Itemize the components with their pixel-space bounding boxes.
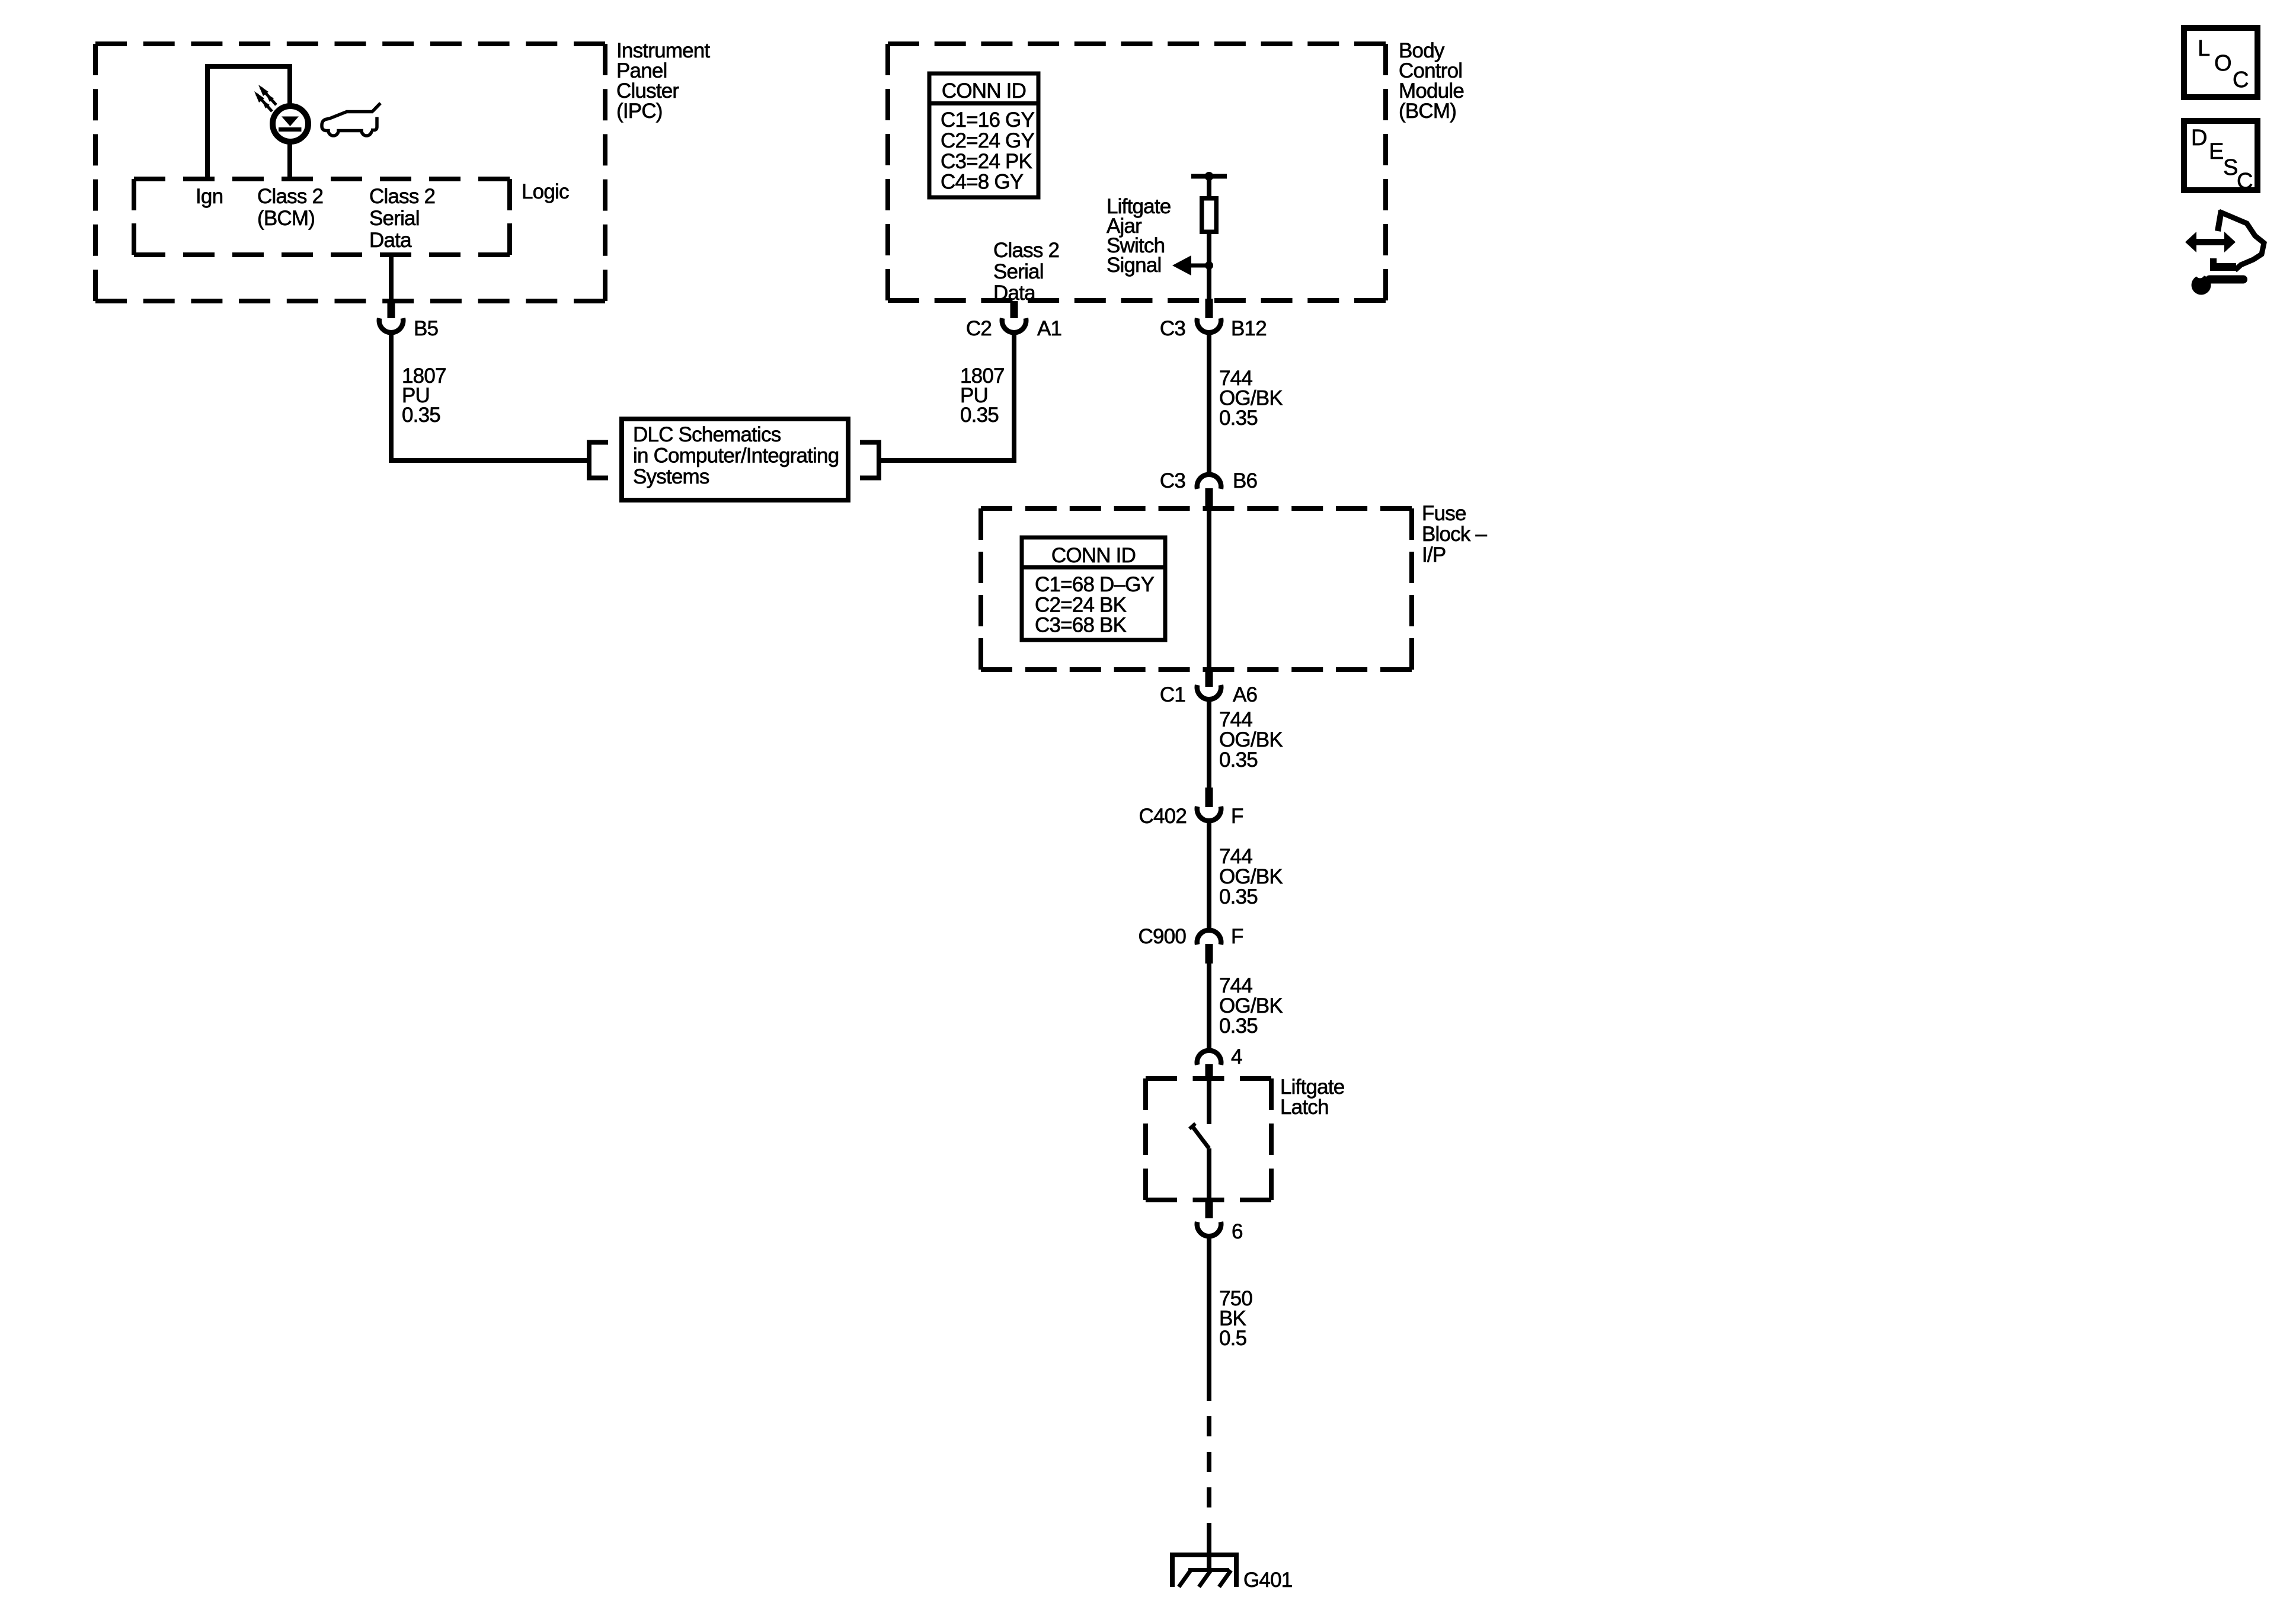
diagnostic jump icon: component outline [2210, 210, 2264, 270]
connector C3/B6 (cap cup) [1197, 475, 1221, 489]
svg-text:C: C [2237, 169, 2253, 194]
svg-text:Data: Data [993, 281, 1036, 305]
svg-text:Class 2: Class 2 [369, 185, 435, 208]
connector C900/F (cap cup) [1197, 930, 1221, 945]
svg-text:Logic: Logic [522, 180, 569, 203]
svg-text:0.35: 0.35 [402, 404, 440, 427]
LOC box icon [2184, 28, 2257, 97]
svg-text:C3=24 PK: C3=24 PK [941, 150, 1032, 173]
svg-text:C3=68 BK: C3=68 BK [1035, 614, 1127, 637]
label: Liftgate Latch [1280, 1076, 1344, 1119]
svg-text:Signal: Signal [1107, 254, 1162, 277]
wire: B12 to fuse block B6 [1207, 335, 1211, 472]
LED emission arrow 1 [258, 85, 276, 105]
table rows: C1=16 GY C2=24 GY C3=24 PK C4=8 GY [941, 108, 1034, 194]
wire label: 744 OG/BK 0.35 (BCM to fuse) [1219, 367, 1283, 430]
connector pin stub at fuse block B6 [1205, 488, 1213, 508]
svg-text:(IPC): (IPC) [616, 100, 663, 123]
pull-up supply rail inside BCM [1191, 174, 1227, 179]
svg-text:Latch: Latch [1280, 1096, 1329, 1119]
svg-text:C3: C3 [1160, 469, 1185, 492]
svg-text:0.35: 0.35 [1219, 1014, 1258, 1038]
diagnostic jump icon: double arrow [2185, 232, 2236, 252]
logic box inside IPC [134, 179, 510, 255]
connector pin 6 (cup) [1197, 1222, 1221, 1236]
wire label: 1807 PU 0.35 (BCM side) [960, 364, 1005, 427]
svg-text:S: S [2223, 155, 2238, 180]
connector pin stub at BCM C3 B12 [1205, 299, 1213, 318]
svg-text:0.35: 0.35 [1219, 748, 1258, 772]
switch blade (liftgate ajar switch) [1189, 1124, 1209, 1148]
svg-text:B12: B12 [1231, 317, 1267, 340]
wire: latch lower contact [1207, 1148, 1211, 1199]
LED emission arrow 2 [254, 91, 272, 111]
svg-text:0.35: 0.35 [1219, 885, 1258, 908]
svg-text:Block –: Block – [1422, 523, 1488, 546]
connector pin 4 (cap cup) [1197, 1051, 1221, 1065]
connector pin stub above pin 6 [1205, 1199, 1213, 1218]
LED cathode bar [279, 127, 302, 132]
svg-text:C4=8 GY: C4=8 GY [941, 171, 1024, 194]
svg-text:C1=68 D–GY: C1=68 D–GY [1035, 573, 1155, 596]
svg-text:D: D [2191, 126, 2207, 151]
svg-text:I/P: I/P [1422, 543, 1446, 566]
wire: Ign loop (left vertical, top horizontal) [207, 66, 290, 179]
wire label: 744 OG/BK 0.35 (C900 to latch) [1219, 974, 1283, 1038]
svg-text:A1: A1 [1037, 317, 1061, 340]
wire label: 750 BK 0.5 [1219, 1287, 1252, 1350]
svg-text:C900: C900 [1139, 925, 1187, 948]
svg-text:C: C [2233, 68, 2249, 92]
connector pin stub at BCM C2 A1 [1011, 301, 1018, 318]
svg-text:CONN ID: CONN ID [942, 79, 1026, 103]
DESC box icon [2184, 121, 2257, 194]
svg-text:Class 2: Class 2 [257, 185, 323, 208]
svg-text:0.5: 0.5 [1219, 1327, 1246, 1350]
wire: pin 6 down (solid) [1207, 1238, 1211, 1401]
svg-text:Ign: Ign [196, 185, 223, 208]
svg-text:C2: C2 [966, 317, 992, 340]
label: Fuse Block - I/P [1422, 502, 1488, 566]
connector C3/B12 (cup) [1197, 318, 1221, 332]
svg-text:C1: C1 [1160, 683, 1185, 706]
connector pin stub below pin 4 [1205, 1064, 1213, 1080]
connector pin stub at fuse block C1 A6 [1205, 667, 1213, 687]
connector C402/F (cup) [1197, 806, 1221, 821]
connector B5 (cup) [379, 318, 403, 332]
resistor (liftgate ajar pull-up) [1202, 199, 1217, 232]
LED diode triangle [282, 117, 299, 127]
connector C2/A1 (cup) [1002, 318, 1026, 332]
svg-text:0.35: 0.35 [960, 404, 999, 427]
svg-text:B5: B5 [414, 317, 438, 340]
svg-text:6: 6 [1232, 1220, 1243, 1243]
svg-text:F: F [1231, 805, 1243, 828]
table rows: C1=68 D-GY C2=24 BK C3=68 BK [1035, 573, 1155, 637]
ground G401 symbol [1172, 1543, 1236, 1587]
wire label: 744 OG/BK 0.35 (C402 to C900) [1219, 845, 1283, 908]
bracket ] right of DLC box [860, 443, 879, 478]
wire: DLC bracket right to A1 [879, 335, 1014, 460]
label: Body Control Module (BCM) [1399, 39, 1464, 123]
svg-text:Serial: Serial [993, 260, 1044, 283]
signal tap arrow to Liftgate Ajar Switch Signal [1172, 255, 1209, 276]
indicator LED D1 circle [273, 106, 308, 142]
svg-text:A6: A6 [1233, 683, 1257, 706]
svg-text:4: 4 [1231, 1045, 1242, 1068]
svg-text:Fuse: Fuse [1422, 502, 1466, 525]
svg-text:G401: G401 [1243, 1569, 1292, 1592]
wire: B5 down and right to DLC bracket [391, 335, 589, 460]
wire: LED branch vertical [287, 64, 292, 179]
label: Class 2 (BCM) [257, 185, 323, 230]
wire: rail to resistor [1207, 177, 1211, 197]
diagnostic jump icon: wrench [2192, 270, 2244, 295]
svg-text:L: L [2198, 36, 2209, 61]
DLC Schematics box [622, 419, 848, 500]
svg-text:(BCM): (BCM) [257, 207, 315, 230]
svg-text:C2=24 BK: C2=24 BK [1035, 593, 1127, 616]
label: Liftgate Ajar Switch Signal [1107, 195, 1171, 277]
svg-text:E: E [2209, 139, 2224, 164]
wire: Class 2 Serial Data to IPC edge [389, 254, 394, 302]
svg-text:C402: C402 [1139, 805, 1187, 828]
module box: Body Control Module (BCM) [888, 44, 1386, 300]
connector C1/A6 (cup) [1197, 685, 1221, 699]
connector pin stub below C900 [1205, 944, 1213, 964]
svg-text:B6: B6 [1233, 469, 1257, 492]
svg-text:F: F [1231, 925, 1243, 948]
svg-text:Data: Data [369, 229, 412, 252]
connector pin stub above C402 [1205, 788, 1213, 807]
wire label: 744 OG/BK 0.35 (A6 to C402) [1219, 708, 1283, 772]
wire: dashed segment to ground [1207, 1401, 1211, 1543]
svg-text:(BCM): (BCM) [1399, 100, 1456, 123]
svg-text:Systems: Systems [633, 465, 709, 488]
wire: C402 to C900 [1207, 823, 1211, 928]
wire: C900 to liftgate latch pin 4 [1207, 964, 1211, 1048]
wire: latch upper contact [1207, 1080, 1211, 1124]
svg-text:O: O [2214, 51, 2231, 76]
icon: vehicle with open liftgate [322, 103, 380, 136]
junction dot at signal tap [1205, 261, 1213, 270]
label: Class 2 Serial Data (IPC) [369, 185, 435, 252]
wire: resistor to BCM pin B12 [1207, 234, 1211, 302]
svg-text:DLC Schematics: DLC Schematics [633, 423, 781, 446]
component box: Liftgate Latch [1146, 1078, 1271, 1200]
CONN ID table (BCM) [929, 73, 1038, 197]
wire: A6 to C402 [1207, 702, 1211, 789]
junction dot on rail [1205, 172, 1214, 181]
svg-text:C3: C3 [1160, 317, 1185, 340]
svg-text:C1=16 GY: C1=16 GY [941, 108, 1034, 132]
svg-text:0.35: 0.35 [1219, 406, 1258, 430]
label: Instrument Panel Cluster (IPC) [616, 39, 710, 123]
connector pin stub at IPC B5 [388, 301, 395, 318]
bracket [ left of DLC box [589, 443, 608, 478]
label: Class 2 Serial Data (BCM) [993, 239, 1059, 305]
module box: Instrument Panel Cluster (IPC) [95, 44, 605, 301]
svg-text:CONN ID: CONN ID [1051, 544, 1136, 567]
wire: inside fuse block B6 to C1 [1207, 508, 1211, 668]
module box: Fuse Block - I/P [981, 508, 1412, 670]
wire label: 1807 PU 0.35 (IPC side) [402, 364, 446, 427]
svg-text:Serial: Serial [369, 207, 420, 230]
svg-text:Class 2: Class 2 [993, 239, 1059, 262]
svg-text:in Computer/Integrating: in Computer/Integrating [633, 444, 839, 468]
CONN ID table (fuse block) [1022, 537, 1165, 640]
label: DLC Schematics in Computer/Integrating Systems [633, 423, 839, 488]
svg-text:C2=24 GY: C2=24 GY [941, 129, 1034, 152]
